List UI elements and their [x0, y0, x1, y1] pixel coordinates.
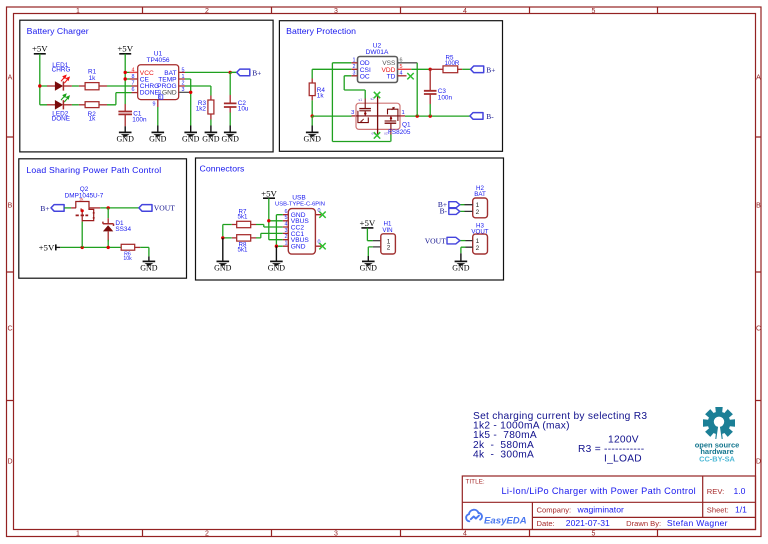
svg-text:4: 4: [132, 67, 135, 73]
svg-text:TD: TD: [387, 73, 396, 80]
svg-text:Company:: Company:: [537, 506, 572, 515]
svg-text:10u: 10u: [238, 106, 249, 113]
svg-text:+5V: +5V: [261, 189, 277, 199]
svg-text:1k: 1k: [89, 75, 97, 82]
svg-text:3: 3: [334, 8, 338, 15]
svg-text:100R: 100R: [445, 60, 460, 67]
svg-text:2021-07-31: 2021-07-31: [566, 518, 610, 528]
svg-text:D: D: [7, 459, 12, 466]
svg-text:Sheet:: Sheet:: [707, 506, 729, 515]
svg-text:4: 4: [285, 221, 288, 227]
svg-text:Q1: Q1: [402, 121, 411, 128]
svg-text:3: 3: [334, 531, 338, 538]
svg-text:+5V: +5V: [32, 44, 48, 54]
svg-text:5: 5: [592, 8, 596, 15]
svg-text:wagiminator: wagiminator: [577, 505, 624, 515]
svg-text:6: 6: [132, 87, 135, 93]
svg-text:BAT: BAT: [474, 191, 486, 198]
svg-text:1.0: 1.0: [734, 486, 746, 496]
svg-text:Battery Charger: Battery Charger: [27, 26, 89, 36]
svg-text:1: 1: [76, 531, 80, 538]
svg-text:5: 5: [285, 215, 288, 221]
svg-text:GND: GND: [157, 90, 162, 99]
svg-text:OC: OC: [360, 73, 370, 80]
svg-text:5: 5: [592, 531, 596, 538]
svg-text:B: B: [756, 203, 761, 210]
svg-text:7: 7: [132, 81, 135, 87]
svg-text:4: 4: [463, 531, 467, 538]
svg-text:B: B: [8, 203, 13, 210]
svg-text:Stefan Wagner: Stefan Wagner: [667, 518, 728, 528]
svg-text:3: 3: [351, 110, 354, 116]
svg-text:1/1: 1/1: [735, 505, 747, 515]
svg-text:C: C: [756, 326, 761, 333]
svg-text:I_LOAD: I_LOAD: [604, 454, 642, 465]
svg-text:Battery Protection: Battery Protection: [286, 26, 356, 36]
svg-text:B+: B+: [40, 204, 49, 213]
svg-text:TITLE:: TITLE:: [466, 479, 485, 486]
svg-text:C: C: [7, 326, 12, 333]
svg-text:B+: B+: [252, 68, 261, 77]
svg-text:5k1: 5k1: [238, 214, 249, 221]
svg-text:VIN: VIN: [382, 227, 392, 234]
svg-text:5k1: 5k1: [238, 246, 249, 253]
svg-text:100n: 100n: [132, 116, 147, 123]
svg-text:10k: 10k: [123, 256, 132, 262]
svg-text:100n: 100n: [438, 94, 453, 101]
svg-text:USB-TYPE-C-6PIN: USB-TYPE-C-6PIN: [275, 202, 325, 208]
svg-text:4k - 300mA: 4k - 300mA: [473, 449, 534, 460]
svg-text:Date:: Date:: [537, 519, 555, 528]
svg-text:D: D: [756, 459, 761, 466]
svg-text:USB: USB: [292, 194, 306, 201]
svg-text:6: 6: [285, 209, 288, 215]
svg-text:A: A: [756, 75, 761, 82]
svg-text:1: 1: [402, 110, 405, 116]
svg-text:SS34: SS34: [115, 226, 131, 233]
svg-text:A: A: [8, 75, 13, 82]
svg-text:2: 2: [285, 234, 288, 240]
svg-text:2: 2: [205, 8, 209, 15]
svg-text:1k: 1k: [317, 93, 325, 100]
svg-text:REV:: REV:: [707, 487, 724, 496]
svg-text:3: 3: [285, 228, 288, 234]
svg-text:2: 2: [476, 209, 480, 216]
svg-text:CC-BY-SA: CC-BY-SA: [699, 454, 735, 463]
svg-text:+5V: +5V: [39, 243, 55, 253]
svg-text:8: 8: [132, 74, 135, 80]
svg-text:GND: GND: [162, 90, 177, 97]
svg-text:s1: s1: [359, 98, 363, 102]
svg-text:+5V: +5V: [360, 218, 376, 228]
svg-text:DONE: DONE: [52, 116, 70, 123]
svg-text:+5V: +5V: [117, 44, 133, 54]
svg-text:DW01A: DW01A: [366, 49, 389, 56]
svg-text:VOUT: VOUT: [425, 236, 446, 245]
svg-text:EasyEDA: EasyEDA: [484, 516, 527, 527]
svg-text:CHRG: CHRG: [52, 67, 71, 74]
svg-text:TP4056: TP4056: [146, 57, 169, 64]
svg-text:2: 2: [205, 531, 209, 538]
svg-text:DMP1045U-7: DMP1045U-7: [65, 192, 104, 199]
svg-text:B-: B-: [486, 112, 494, 121]
svg-text:GND: GND: [291, 244, 306, 251]
svg-text:1200V: 1200V: [608, 435, 639, 446]
svg-text:FS8205: FS8205: [388, 129, 411, 136]
svg-text:1k2: 1k2: [196, 106, 207, 113]
svg-text:VOUT: VOUT: [471, 228, 488, 235]
svg-text:Connectors: Connectors: [200, 163, 246, 173]
svg-text:B-: B-: [440, 207, 448, 216]
svg-text:4: 4: [463, 8, 467, 15]
svg-text:Drawn By:: Drawn By:: [626, 519, 661, 528]
svg-text:9: 9: [153, 102, 156, 108]
svg-text:Li-Ion/LiPo Charger with Power: Li-Ion/LiPo Charger with Power Path Cont…: [502, 486, 697, 496]
svg-text:B+: B+: [486, 65, 495, 74]
svg-text:Load Sharing Power Path Contro: Load Sharing Power Path Control: [26, 165, 161, 175]
svg-text:2: 2: [387, 245, 391, 252]
svg-text:2: 2: [476, 245, 480, 252]
svg-text:1k: 1k: [89, 116, 97, 123]
svg-text:1: 1: [285, 241, 288, 247]
svg-text:1: 1: [76, 8, 80, 15]
svg-text:VOUT: VOUT: [154, 204, 175, 213]
